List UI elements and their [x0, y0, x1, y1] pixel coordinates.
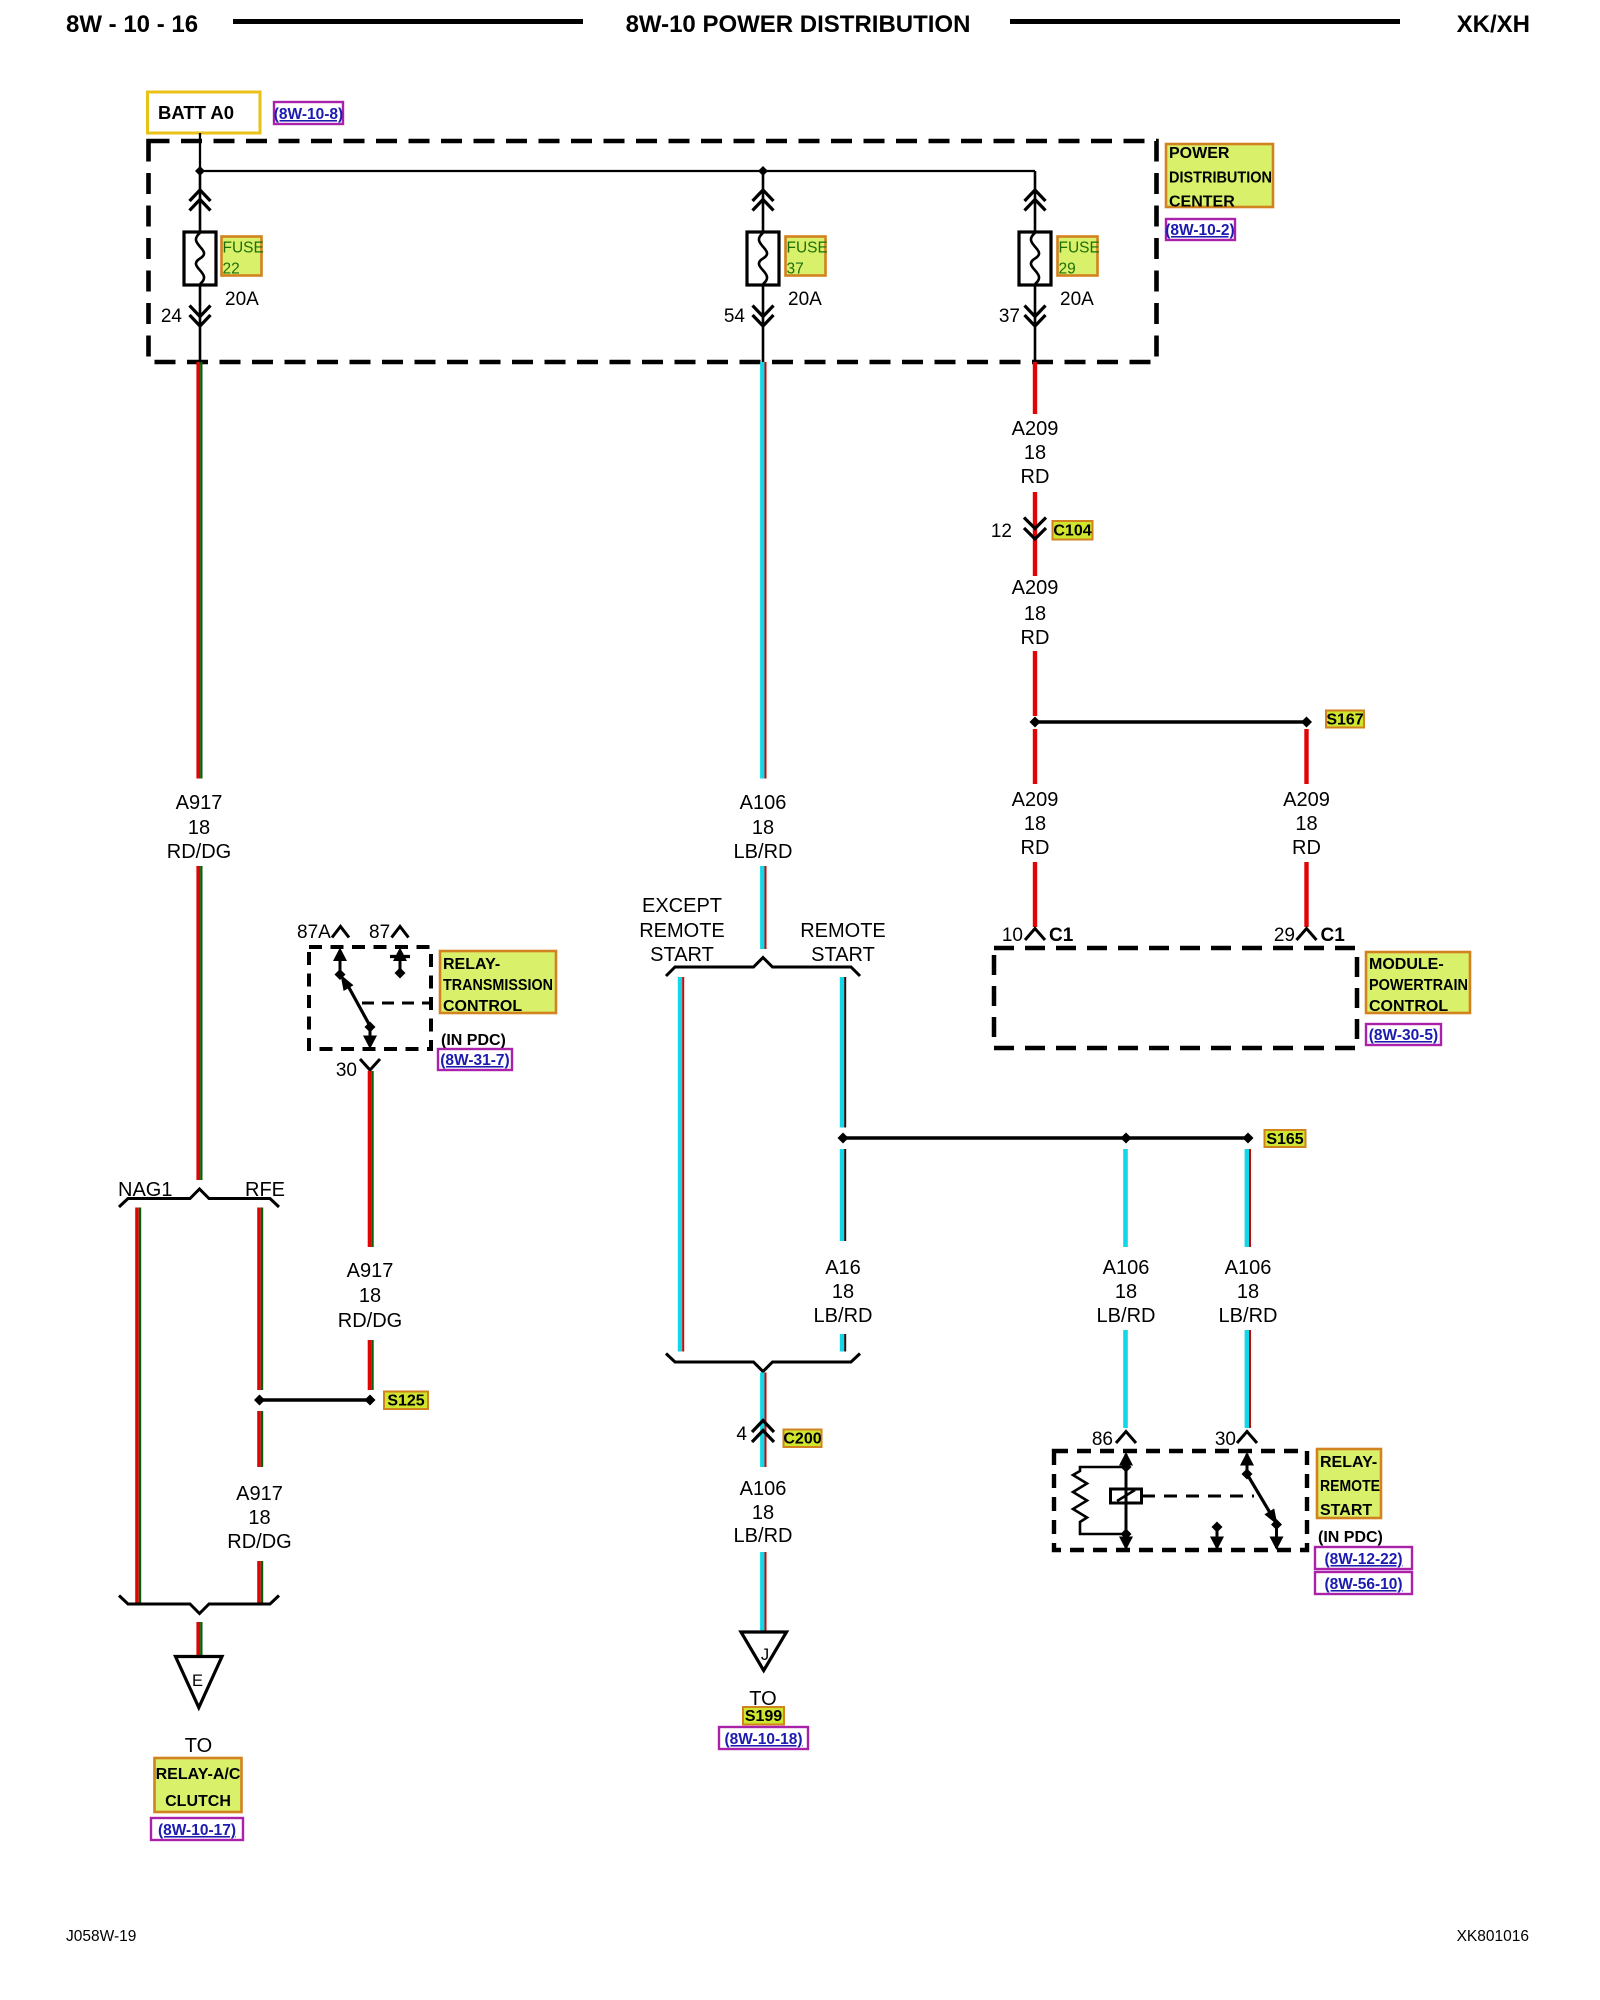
wire label A106 18 LB/RD (pin 30)	[1219, 1257, 1278, 1327]
connector chevrons above fuse 22	[190, 190, 211, 211]
relay remote start label	[1317, 1449, 1381, 1519]
relay pin 30 arrow	[363, 1027, 377, 1049]
relay U1 transmission control dashed box	[309, 947, 431, 1049]
svg-text:START: START	[1320, 1502, 1372, 1519]
connector chevrons above fuse 29	[1025, 190, 1046, 211]
reference label (8W-10-2)	[1165, 219, 1235, 240]
connector chevron pin 87	[392, 927, 409, 938]
svg-text:A209: A209	[1012, 789, 1059, 811]
wire splice S165	[843, 1136, 1248, 1139]
wire A209 RD segment 4	[1033, 651, 1037, 716]
node junction at fuse 37	[758, 166, 768, 176]
pin 30 label	[1215, 1429, 1236, 1450]
svg-text:18: 18	[1115, 1281, 1137, 1303]
wire label A209 18 RD	[1012, 418, 1059, 488]
svg-text:POWERTRAIN: POWERTRAIN	[1369, 977, 1468, 994]
fuse 22 rating 20A	[225, 289, 259, 310]
svg-text:A209: A209	[1012, 418, 1059, 440]
svg-text:87A: 87A	[297, 922, 331, 943]
relay pin 86 stem with arrows	[1119, 1452, 1133, 1550]
svg-text:A106: A106	[740, 1478, 787, 1500]
internal dashed link to contact 87	[362, 1002, 430, 1005]
svg-text:MODULE-: MODULE-	[1369, 956, 1444, 973]
wire A917 RD/DG upper segment	[198, 362, 201, 779]
pin 87 label	[369, 922, 390, 943]
connector label C104	[1053, 521, 1093, 540]
destination text TO	[749, 1688, 776, 1710]
svg-text:REMOTE: REMOTE	[800, 920, 886, 942]
svg-text:LB/RD: LB/RD	[814, 1305, 873, 1327]
wire except remote start branch LB/RD	[680, 977, 683, 1352]
wire A209 RD segment 2	[1033, 492, 1037, 576]
battery feed box BATT A0	[148, 92, 261, 133]
wire RFE branch RD/DG middle	[259, 1411, 262, 1467]
svg-text:RELAY-: RELAY-	[1320, 1454, 1377, 1471]
svg-text:(8W-31-7): (8W-31-7)	[440, 1052, 509, 1069]
bus bar wire inside PDC	[200, 170, 1035, 172]
svg-text:37: 37	[787, 261, 804, 278]
splice label S125	[384, 1392, 428, 1410]
wire A106 LB/RD to relay 30 lower	[1247, 1330, 1250, 1428]
svg-text:START: START	[811, 944, 875, 966]
svg-text:CENTER: CENTER	[1169, 194, 1235, 211]
svg-text:18: 18	[752, 1502, 774, 1524]
relay coil box	[1111, 1489, 1142, 1503]
wire A106 LB/RD to relay 86 upper	[1123, 1149, 1128, 1247]
wire A106 LB/RD to relay 30 upper	[1247, 1149, 1250, 1247]
footer left code	[66, 1928, 136, 1945]
connector chevron pin 30	[360, 1059, 380, 1070]
wire fuse 29 branch	[1034, 171, 1037, 362]
split brace NAG1/RFE	[119, 1189, 279, 1207]
svg-text:87: 87	[369, 922, 390, 943]
svg-text:18: 18	[1237, 1281, 1259, 1303]
wire label A917 18 RD/DG (relay 30)	[338, 1260, 402, 1332]
wire NAG1 branch RD/DG	[137, 1208, 140, 1603]
svg-text:18: 18	[359, 1285, 381, 1307]
reference label (8W-10-18)	[719, 1727, 808, 1749]
svg-text:S167: S167	[1326, 712, 1363, 729]
svg-text:18: 18	[752, 817, 774, 839]
page header right title	[1457, 11, 1530, 38]
wire A917 RD/DG lower segment	[198, 866, 201, 1180]
header rule right	[1010, 19, 1400, 24]
node RFE label	[245, 1179, 285, 1201]
svg-text:LB/RD: LB/RD	[734, 841, 793, 863]
pin 4 label	[736, 1424, 747, 1445]
svg-text:START: START	[650, 944, 714, 966]
svg-text:(8W-10-18): (8W-10-18)	[724, 1731, 802, 1748]
node junction S167 left	[1030, 717, 1041, 728]
wire A106 LB/RD upper segment	[762, 362, 765, 779]
wire A209 RD segment 1	[1033, 362, 1037, 414]
svg-text:86: 86	[1092, 1429, 1113, 1450]
connector chevron pin 87A	[332, 927, 349, 938]
svg-text:LB/RD: LB/RD	[1097, 1305, 1156, 1327]
connector chevron pin 29 C1	[1297, 929, 1317, 941]
svg-text:TO: TO	[185, 1735, 212, 1757]
relay transmission control label	[440, 951, 556, 1015]
reference label (8W-10-17)	[151, 1818, 243, 1840]
wire to terminal J	[762, 1552, 765, 1632]
node on pin 30 stem	[1242, 1469, 1253, 1480]
svg-text:A106: A106	[1225, 1257, 1272, 1279]
relay contact 87A arrow	[333, 948, 347, 975]
off-page terminal J	[741, 1632, 787, 1671]
svg-text:30: 30	[336, 1060, 357, 1081]
svg-text:18: 18	[832, 1281, 854, 1303]
wire label A106 18 LB/RD (pin 86)	[1097, 1257, 1156, 1327]
node junction S125 right	[365, 1395, 376, 1406]
wire remote start branch middle	[842, 1149, 845, 1241]
svg-text:(IN PDC): (IN PDC)	[1318, 1529, 1383, 1546]
relay K1 remote start dashed box	[1054, 1451, 1307, 1550]
node junction S165 tap	[838, 1133, 849, 1144]
wire label A917 18 RD/DG (RFE branch)	[227, 1483, 291, 1553]
node on coil stem bottom	[1121, 1529, 1132, 1540]
svg-text:REMOTE: REMOTE	[1320, 1478, 1380, 1495]
relay pin 30 arrow	[1240, 1452, 1254, 1474]
location note (IN PDC)	[1318, 1529, 1383, 1546]
wire RFE branch RD/DG upper	[259, 1208, 262, 1391]
wire A209 RD to PCM pin 10 upper	[1033, 729, 1037, 784]
reference label (8W-10-8)	[274, 102, 343, 124]
connector name C1 (pin 10)	[1049, 925, 1074, 946]
svg-text:8W-10 POWER DISTRIBUTION: 8W-10 POWER DISTRIBUTION	[626, 11, 971, 38]
module powertrain control dashed box	[994, 948, 1357, 1048]
svg-text:18: 18	[1024, 442, 1046, 464]
svg-text:C1: C1	[1049, 925, 1074, 946]
svg-text:A209: A209	[1283, 789, 1330, 811]
svg-text:18: 18	[248, 1507, 270, 1529]
power distribution center label	[1166, 144, 1273, 211]
svg-text:24: 24	[161, 306, 183, 327]
wire label A106 18 LB/RD (below C200)	[734, 1478, 793, 1547]
off-page terminal E	[176, 1657, 223, 1708]
svg-text:20A: 20A	[225, 289, 259, 310]
svg-text:A917: A917	[236, 1483, 283, 1505]
wire label A209 18 RD (pin 10)	[1012, 789, 1059, 859]
svg-text:RD: RD	[1292, 837, 1321, 859]
svg-text:30: 30	[1215, 1429, 1236, 1450]
pin 86 label	[1092, 1429, 1113, 1450]
connector chevrons below fuse 29	[1025, 306, 1046, 327]
wire A917 RD/DG from relay 30 lower	[370, 1340, 373, 1390]
svg-text:RD: RD	[1021, 466, 1050, 488]
svg-text:A917: A917	[176, 792, 223, 814]
wire A917 RD/DG from relay 30 upper	[370, 1071, 373, 1247]
wire fuse 37 branch	[762, 171, 765, 362]
reference label (8W-12-22)	[1315, 1547, 1412, 1569]
svg-text:C1: C1	[1321, 925, 1346, 946]
svg-text:CONTROL: CONTROL	[443, 998, 522, 1015]
connector chevron pin 30	[1237, 1432, 1257, 1444]
relay contact 87 arrow down	[1270, 1525, 1284, 1551]
wire fuse 22 branch	[199, 171, 202, 362]
svg-text:EXCEPT: EXCEPT	[642, 895, 722, 917]
node NAG1 label	[118, 1179, 172, 1201]
relay remote start switch arm	[1247, 1474, 1278, 1525]
svg-text:RD/DG: RD/DG	[227, 1531, 291, 1553]
node junction at fuse 22	[195, 166, 205, 176]
module powertrain control label	[1366, 952, 1470, 1015]
svg-text:LB/RD: LB/RD	[734, 1525, 793, 1547]
branch label EXCEPT REMOTE START	[639, 895, 725, 966]
svg-text:S165: S165	[1266, 1131, 1303, 1148]
svg-text:(IN PDC): (IN PDC)	[441, 1032, 506, 1049]
wire A106 LB/RD to relay 86 lower	[1123, 1330, 1128, 1428]
svg-text:37: 37	[999, 306, 1020, 327]
connector chevrons C200	[752, 1421, 774, 1443]
svg-text:FUSE: FUSE	[223, 240, 264, 257]
destination text TO	[185, 1735, 212, 1757]
fuse 22 label box	[222, 237, 264, 278]
pin 37 label	[999, 306, 1020, 327]
node on 87 contact	[395, 968, 406, 979]
destination label RELAY-A/C CLUTCH	[155, 1758, 242, 1812]
wire splice S167	[1035, 720, 1307, 723]
fuse 29 rating 20A	[1060, 289, 1094, 310]
svg-text:(8W-10-17): (8W-10-17)	[158, 1822, 236, 1839]
wire label A917 18 RD/DG	[167, 792, 231, 863]
wire A209 RD to PCM pin 29 lower	[1304, 862, 1308, 927]
fuse F29 body	[1019, 232, 1051, 285]
svg-text:RD/DG: RD/DG	[167, 841, 231, 863]
node junction S165 right	[1243, 1133, 1254, 1144]
connector chevrons above fuse 37	[753, 190, 774, 211]
svg-text:C104: C104	[1053, 523, 1091, 540]
reference label (8W-31-7)	[438, 1049, 512, 1070]
branch label REMOTE START	[800, 920, 886, 966]
wire A209 RD to PCM pin 29 upper	[1304, 729, 1308, 784]
wire to connector C200	[762, 1373, 765, 1468]
split brace remote start options	[666, 958, 860, 977]
connector chevrons below fuse 37	[753, 306, 774, 327]
svg-text:LB/RD: LB/RD	[1219, 1305, 1278, 1327]
fuse 29 label box	[1058, 237, 1100, 278]
svg-text:(8W-10-8): (8W-10-8)	[274, 106, 343, 123]
footer right code	[1457, 1928, 1529, 1945]
svg-text:RELAY-: RELAY-	[443, 956, 500, 973]
wire label A16 18 LB/RD	[814, 1257, 873, 1327]
svg-text:XK801016: XK801016	[1457, 1928, 1529, 1945]
svg-text:XK/XH: XK/XH	[1457, 11, 1530, 38]
svg-text:18: 18	[1024, 603, 1046, 625]
svg-text:8W - 10 - 16: 8W - 10 - 16	[66, 11, 198, 38]
node on 87A contact	[335, 969, 346, 980]
svg-text:A16: A16	[825, 1257, 861, 1279]
wire splice S125	[260, 1398, 371, 1401]
svg-text:J: J	[761, 1646, 769, 1664]
reference label (8W-30-5)	[1366, 1024, 1441, 1045]
svg-text:FUSE: FUSE	[787, 240, 828, 257]
fuse 37 label box	[786, 237, 828, 278]
svg-text:(8W-56-10): (8W-56-10)	[1324, 1576, 1402, 1593]
svg-text:A209: A209	[1012, 577, 1059, 599]
connector chevrons C104	[1024, 518, 1046, 540]
svg-text:18: 18	[188, 817, 210, 839]
internal dashed link coil to switch	[1142, 1495, 1254, 1498]
svg-text:DISTRIBUTION: DISTRIBUTION	[1169, 170, 1272, 187]
connector name C1 (pin 29)	[1321, 925, 1346, 946]
wire remote start branch lower	[842, 1334, 845, 1352]
svg-text:(8W-12-22): (8W-12-22)	[1324, 1551, 1402, 1568]
svg-text:FUSE: FUSE	[1059, 240, 1100, 257]
pin 24 label	[161, 306, 183, 327]
splice label S165	[1265, 1130, 1306, 1148]
wire label A209 18 RD below C104	[1012, 577, 1059, 649]
svg-text:S125: S125	[387, 1393, 424, 1410]
pin 12 label	[991, 521, 1012, 542]
svg-text:29: 29	[1059, 261, 1076, 278]
wire label A106 18 LB/RD	[734, 792, 793, 863]
fuse F37 body	[747, 232, 779, 285]
merge brace to terminal E	[119, 1596, 279, 1614]
node on switch arm pivot	[365, 1022, 376, 1033]
svg-text:RELAY-A/C: RELAY-A/C	[156, 1766, 241, 1783]
pin 54 label	[724, 306, 746, 327]
pin 10 label	[1002, 925, 1023, 946]
svg-text:29: 29	[1274, 925, 1295, 946]
node on coil stem top	[1121, 1462, 1132, 1473]
wire from battery to bus	[199, 133, 201, 172]
svg-text:A106: A106	[1103, 1257, 1150, 1279]
svg-text:CONTROL: CONTROL	[1369, 998, 1448, 1015]
svg-text:REMOTE: REMOTE	[639, 920, 725, 942]
svg-text:20A: 20A	[788, 289, 822, 310]
svg-text:RD: RD	[1021, 627, 1050, 649]
node on switch arm end	[1271, 1519, 1282, 1530]
power distribution center dashed box	[149, 141, 1157, 362]
merge brace to C200	[666, 1354, 860, 1372]
wire remote start branch upper	[842, 977, 845, 1128]
svg-text:A917: A917	[347, 1260, 394, 1282]
svg-text:E: E	[192, 1672, 203, 1690]
wire RFE branch RD/DG lower	[259, 1561, 262, 1603]
fuse 37 rating 20A	[788, 289, 822, 310]
node junction S165 middle	[1121, 1133, 1132, 1144]
svg-text:POWER: POWER	[1169, 145, 1230, 162]
svg-text:18: 18	[1024, 813, 1046, 835]
connector label C200	[783, 1430, 821, 1448]
pin 30 label	[336, 1060, 357, 1081]
wire A209 RD to PCM pin 10 lower	[1033, 862, 1037, 927]
relay switch arm	[341, 975, 371, 1027]
svg-text:4: 4	[736, 1424, 747, 1445]
svg-text:BATT A0: BATT A0	[158, 102, 234, 123]
svg-text:10: 10	[1002, 925, 1023, 946]
svg-text:CLUTCH: CLUTCH	[165, 1793, 231, 1810]
svg-text:54: 54	[724, 306, 746, 327]
relay contact 87 arrow with bar	[390, 948, 410, 973]
svg-text:20A: 20A	[1060, 289, 1094, 310]
connector chevrons below fuse 22	[190, 306, 211, 327]
svg-text:RD: RD	[1021, 837, 1050, 859]
fuse F22 body	[184, 232, 216, 285]
svg-text:TRANSMISSION: TRANSMISSION	[443, 977, 553, 994]
pin 29 label	[1274, 925, 1295, 946]
svg-text:18: 18	[1295, 813, 1317, 835]
svg-text:RD/DG: RD/DG	[338, 1310, 402, 1332]
relay contact 87A arrow down	[1210, 1522, 1224, 1551]
splice label S167	[1326, 711, 1364, 729]
page header center title	[626, 11, 971, 38]
wire A106 LB/RD to split	[762, 866, 765, 949]
page header left title	[66, 11, 198, 38]
svg-text:22: 22	[223, 261, 240, 278]
connector chevron pin 86	[1116, 1432, 1136, 1444]
wire label A209 18 RD (pin 29)	[1283, 789, 1330, 859]
destination splice label S199	[743, 1707, 784, 1725]
pin 87A label	[297, 922, 331, 943]
svg-text:J058W-19: J058W-19	[66, 1928, 136, 1945]
connector chevron pin 10 C1	[1025, 929, 1045, 941]
wire to terminal E RD/DG	[198, 1622, 201, 1657]
svg-text:C200: C200	[783, 1431, 821, 1448]
svg-text:(8W-10-2): (8W-10-2)	[1165, 222, 1234, 239]
reference label (8W-56-10)	[1315, 1572, 1412, 1594]
node junction S167 right	[1301, 717, 1312, 728]
relay coil suppression resistor	[1073, 1467, 1126, 1534]
location note (IN PDC)	[441, 1032, 506, 1049]
node junction S125 left	[254, 1395, 265, 1406]
header rule left	[233, 19, 583, 24]
svg-text:12: 12	[991, 521, 1012, 542]
svg-text:(8W-30-5): (8W-30-5)	[1369, 1027, 1438, 1044]
svg-text:S199: S199	[745, 1708, 782, 1725]
svg-text:A106: A106	[740, 792, 787, 814]
